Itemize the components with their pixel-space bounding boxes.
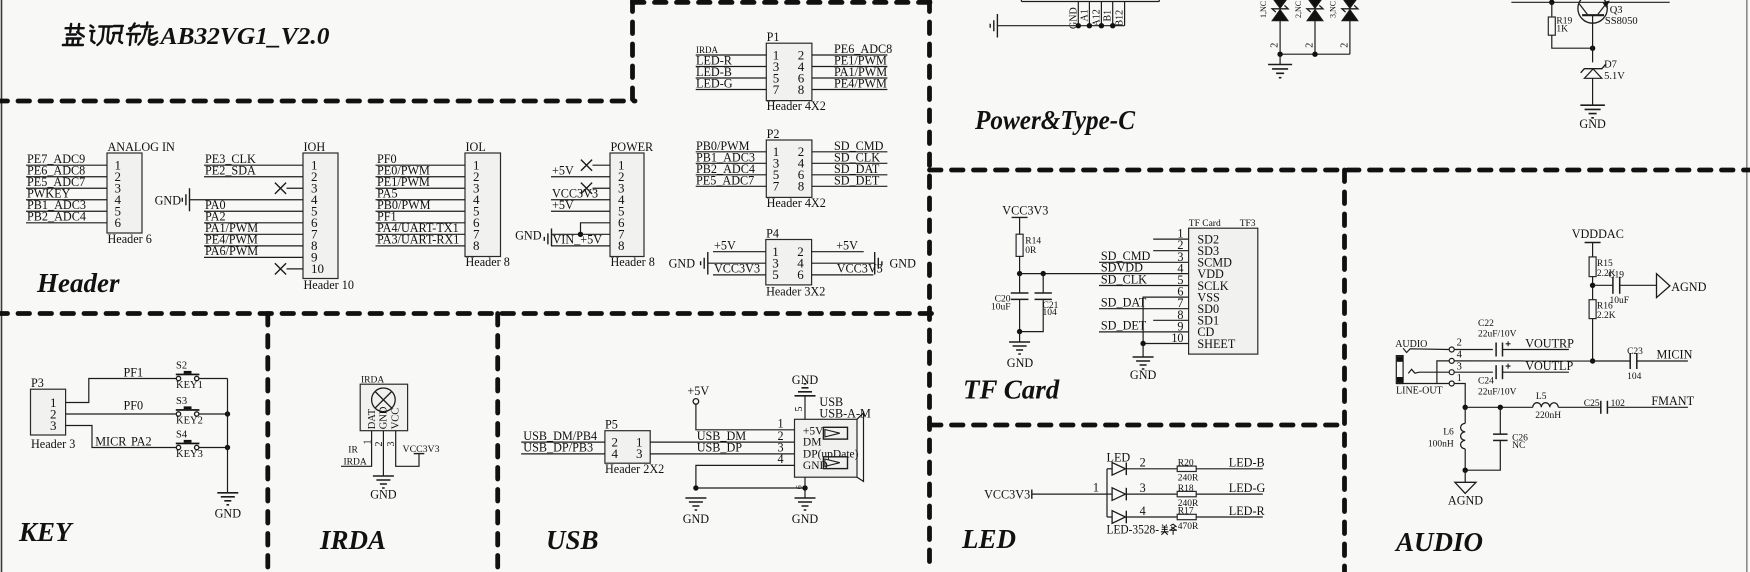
jack sleeve line to pin1 xyxy=(1396,383,1449,385)
no-connect X on IOH pin 10 xyxy=(275,263,303,274)
TVS diode 1,NC xyxy=(1259,0,1288,54)
svg-text:1,NC: 1,NC xyxy=(1259,1,1268,18)
jack ring contact chevron to pin3 xyxy=(1408,369,1449,373)
svg-text:LED-3528-: LED-3528- xyxy=(1107,523,1160,537)
svg-text:7: 7 xyxy=(773,179,780,194)
wire USB pin4 to GND net xyxy=(696,465,795,488)
svg-text:R20: R20 xyxy=(1178,459,1194,469)
svg-text:+5V: +5V xyxy=(836,239,858,253)
wire S4 to GND net xyxy=(199,447,228,449)
TF3 pin 8 SD1 label xyxy=(1177,308,1219,328)
wire R19 to base net xyxy=(1552,35,1593,48)
KEY/IRDA dashed divider xyxy=(265,314,270,572)
+5V supply circle xyxy=(687,384,709,404)
TF3 pin 10 SHEET label xyxy=(1171,331,1236,351)
TF card socket TF3 xyxy=(1189,219,1258,354)
svg-text:Header 8: Header 8 xyxy=(466,255,510,269)
USB pin5 shield stub xyxy=(794,396,805,419)
wire KEY GND vertical xyxy=(227,379,229,493)
wire TVS bus to ground xyxy=(1279,54,1281,64)
svg-text:IOL: IOL xyxy=(466,140,486,154)
wire Type-C ground bus xyxy=(997,25,1124,27)
jack pin circle 3 xyxy=(1449,362,1462,375)
junction dot Type-C GND xyxy=(1076,23,1081,28)
svg-text:GND: GND xyxy=(792,373,819,387)
wire PE1/PWM from P1 pin 4 xyxy=(812,54,888,68)
svg-text:USB_DP: USB_DP xyxy=(697,441,743,455)
sheet right border xyxy=(1746,0,1748,572)
svg-text:IRDA: IRDA xyxy=(319,525,386,555)
svg-text:4: 4 xyxy=(778,452,784,466)
wire PE3_CLK to IOH pin 1 xyxy=(204,152,303,166)
wire SD_CMD to TF3 pin 3 xyxy=(1099,249,1189,263)
jack pin circle 1 xyxy=(1449,373,1462,386)
svg-text:L6: L6 xyxy=(1443,427,1454,437)
junction dot POWER pin6/7 xyxy=(578,232,583,237)
TF3 pin 9 CD label xyxy=(1177,319,1214,339)
ground symbol TF caps xyxy=(1007,332,1034,370)
capacitor C22 22uF/10V xyxy=(1454,319,1516,357)
top dashed border of middle header column xyxy=(633,0,931,5)
svg-text:IRDA: IRDA xyxy=(361,375,384,385)
svg-text:GND: GND xyxy=(890,257,917,271)
svg-text:C24: C24 xyxy=(1478,377,1494,387)
connector ANALOG IN Header 6 xyxy=(107,140,175,246)
wire PA2 to IOH pin 6 xyxy=(204,210,303,224)
no-connect X on POWER pin 3 xyxy=(581,183,610,194)
svg-text:3: 3 xyxy=(1457,362,1462,373)
svg-text:LINE-OUT: LINE-OUT xyxy=(1396,385,1443,396)
jack pin circle 4 xyxy=(1449,349,1462,363)
wire PF0 to IOL pin 1 xyxy=(376,152,466,166)
svg-text:GND: GND xyxy=(1579,117,1606,131)
capacitor C20 10uF xyxy=(991,274,1028,332)
svg-text:SS8050: SS8050 xyxy=(1605,16,1638,27)
wire LED-G to P1 pin 7 xyxy=(696,77,767,91)
svg-text:4: 4 xyxy=(1140,504,1146,518)
svg-text:POWER: POWER xyxy=(611,140,655,154)
svg-text:1: 1 xyxy=(1457,373,1462,384)
svg-text:Header 2X2: Header 2X2 xyxy=(605,462,664,476)
svg-text:PE2_SDA: PE2_SDA xyxy=(205,164,256,178)
GND symbol Type-C bus xyxy=(990,14,997,38)
label LED-3528 part name xyxy=(1107,523,1178,537)
svg-text:VIN_+5V: VIN_+5V xyxy=(553,233,603,247)
inductor L6 100nH xyxy=(1428,407,1465,470)
svg-text:Power&Type-C: Power&Type-C xyxy=(974,105,1136,135)
svg-text:PB2_ADC4: PB2_ADC4 xyxy=(27,210,86,224)
wire LED-B to P1 pin 5 xyxy=(696,65,767,79)
Type-C pin A12 stub xyxy=(1091,2,1102,27)
junction dot TVS 1 xyxy=(1277,52,1282,57)
wire PE5_ADC7 to P2 pin 7 xyxy=(696,173,767,187)
svg-text:VOUTRP: VOUTRP xyxy=(1525,336,1574,350)
pushbutton switch S4 KEY3 xyxy=(176,430,203,460)
wire stub TF3 pin 2 xyxy=(1153,250,1188,252)
junction dot C21 branch xyxy=(1041,271,1046,276)
wire collector rail top xyxy=(1511,1,1669,3)
wire IRDA to P1 pin 1 xyxy=(696,45,767,55)
svg-text:LED-R: LED-R xyxy=(1229,504,1266,518)
svg-text:C19: C19 xyxy=(1608,271,1624,281)
svg-text:470R: 470R xyxy=(1178,522,1199,532)
svg-text:TF3: TF3 xyxy=(1240,219,1256,229)
ground symbol USB left xyxy=(683,498,710,526)
IRDA/USB dashed divider xyxy=(495,314,500,572)
wire +5V to POWER pin 5 xyxy=(551,198,610,212)
resistor R18 240R xyxy=(1177,484,1199,509)
svg-text:GND: GND xyxy=(1130,368,1157,382)
wire SDVDD rail to TF3 VDD xyxy=(1020,260,1189,274)
connector IOL Header 8 xyxy=(465,140,510,269)
svg-text:S2: S2 xyxy=(176,361,187,372)
svg-text:100nH: 100nH xyxy=(1428,439,1454,449)
svg-text:6: 6 xyxy=(795,485,804,489)
svg-text:VCC3V3: VCC3V3 xyxy=(403,444,440,455)
IRDA receiver module U? xyxy=(360,375,407,430)
svg-text:SD_CLK: SD_CLK xyxy=(1101,272,1147,286)
wire PB1_ADC3 to ANALOG IN pin 5 xyxy=(26,198,107,212)
svg-text:LED-G: LED-G xyxy=(1229,481,1266,495)
svg-text:220nH: 220nH xyxy=(1535,411,1561,421)
svg-text:Header 6: Header 6 xyxy=(108,232,152,246)
svg-text:A1: A1 xyxy=(1079,9,1090,21)
USB plug icon bottom xyxy=(823,457,847,469)
wire SD_DET to TF3 pin 9 xyxy=(1099,319,1189,333)
wire USB_DM/PB4 to P5 xyxy=(521,429,605,443)
svg-text:LED-B: LED-B xyxy=(1229,456,1265,470)
svg-text:2: 2 xyxy=(1339,43,1350,48)
Type-C pin A1 stub xyxy=(1079,2,1090,26)
svg-text:PA6/PWM: PA6/PWM xyxy=(205,244,258,258)
wire PE4/PWM to IOH pin 8 xyxy=(204,233,303,247)
ground symbol IRDA GND xyxy=(370,476,397,502)
svg-text:8: 8 xyxy=(798,82,805,97)
svg-text:4: 4 xyxy=(1457,349,1463,360)
LED diode row LED-R xyxy=(1107,504,1177,524)
TF3 pin 7 SD0 label xyxy=(1177,296,1219,316)
Type-C pin B12 stub xyxy=(1115,2,1126,27)
sheet left border xyxy=(1,0,3,572)
svg-text:P5: P5 xyxy=(605,417,618,431)
svg-text:GND: GND xyxy=(370,488,397,502)
wire PWKEY to ANALOG IN pin 4 xyxy=(26,187,107,201)
svg-text:C22: C22 xyxy=(1478,319,1494,329)
junction dot USB gnd right xyxy=(802,485,807,490)
svg-text:104: 104 xyxy=(1627,372,1642,382)
svg-text:PF0: PF0 xyxy=(124,398,144,412)
wire PE0/PWM to IOL pin 2 xyxy=(376,164,466,178)
svg-text:22uF/10V: 22uF/10V xyxy=(1478,330,1517,340)
svg-text:3: 3 xyxy=(50,418,57,433)
wire VOUTRP xyxy=(1503,336,1575,350)
GND symbol to P4 pin 3 xyxy=(669,252,766,275)
svg-text:PE4/PWM: PE4/PWM xyxy=(834,77,887,91)
TF3 pin 1 SD2 label xyxy=(1177,227,1219,247)
wire TF3 VSS to SHEET gnd xyxy=(1143,297,1189,343)
wire PF0 from P3 pin2 to S3 xyxy=(66,398,177,414)
svg-text:VOUTLP: VOUTLP xyxy=(1525,359,1573,373)
wire PA1/PWM to IOH pin 7 xyxy=(204,221,303,235)
TF3 pin 5 SCLK label xyxy=(1177,273,1228,293)
TVS diode 3,NC xyxy=(1329,0,1358,54)
wire L5 to C25 xyxy=(1558,406,1601,408)
svg-text:GND: GND xyxy=(792,512,819,526)
wire VCC3V3 from P4 pin 6 xyxy=(812,262,883,276)
svg-text:DAT: DAT xyxy=(367,408,378,429)
GND symbol from P4 pin 4 xyxy=(812,252,917,275)
title box dashed right border xyxy=(630,0,635,101)
TFCard/LED dashed divider xyxy=(930,423,1345,428)
wire LED-B out xyxy=(1196,456,1264,470)
svg-text:P3: P3 xyxy=(31,376,44,390)
svg-text:2: 2 xyxy=(1457,338,1462,349)
svg-text:GND: GND xyxy=(669,257,696,271)
svg-text:LED: LED xyxy=(1107,451,1131,465)
wire PA3/UART-RX1 to IOL pin 8 xyxy=(376,233,466,247)
svg-text:2,NC: 2,NC xyxy=(1294,1,1303,18)
svg-text:D7: D7 xyxy=(1604,60,1617,71)
svg-text:SD_DET: SD_DET xyxy=(834,173,880,187)
wire MICR PA2 from P3 pin3 to S4 xyxy=(66,426,177,449)
GND symbol on POWER pins 7-8 xyxy=(515,228,551,246)
wire PE6_ADC8 from P1 pin 2 xyxy=(812,42,892,56)
svg-text:3,NC: 3,NC xyxy=(1329,1,1338,18)
svg-text:5: 5 xyxy=(772,267,779,282)
wire SD_DET from P2 pin 8 xyxy=(812,173,888,187)
connector IOH Header 10 xyxy=(303,140,354,292)
ground symbol D7 xyxy=(1579,105,1606,131)
svg-text:C25: C25 xyxy=(1584,399,1600,409)
svg-text:+5V: +5V xyxy=(714,239,736,253)
connector P1 Header 4X2 xyxy=(766,30,826,113)
junction dot MICIN row xyxy=(1590,358,1595,363)
svg-text:MICR: MICR xyxy=(95,434,127,448)
wire LED-R out xyxy=(1196,504,1265,518)
svg-text:SD_CMD: SD_CMD xyxy=(1101,249,1151,263)
junction dot rail R19 xyxy=(1549,0,1554,5)
wire PE6_ADC8 to ANALOG IN pin 2 xyxy=(26,164,107,178)
svg-text:Header 3: Header 3 xyxy=(31,437,75,451)
svg-text:PF1: PF1 xyxy=(124,365,144,379)
sheet title text xyxy=(63,23,159,46)
svg-text:1: 1 xyxy=(778,417,784,431)
svg-text:MICIN: MICIN xyxy=(1657,348,1693,362)
connector P3 Header 3 xyxy=(31,376,76,451)
wire S2 to GND net xyxy=(199,378,228,380)
svg-text:VCC: VCC xyxy=(390,408,401,430)
junction dot AGND bottom xyxy=(1463,468,1468,473)
junction dot C19 branch xyxy=(1590,283,1595,288)
svg-text:GND: GND xyxy=(515,228,542,242)
wire PA4/UART-TX1 to IOL pin 7 xyxy=(376,221,466,235)
wire SD_DAT to TF3 pin 7 xyxy=(1099,296,1189,310)
svg-text:B12: B12 xyxy=(1115,10,1126,27)
power flag VDDDAC xyxy=(1572,227,1624,257)
junction dot Type-C A12 xyxy=(1099,23,1104,28)
svg-text:GND: GND xyxy=(155,193,182,207)
capacitor C19 10uF xyxy=(1593,271,1657,306)
svg-text:ANALOG IN: ANALOG IN xyxy=(108,140,176,154)
svg-text:6: 6 xyxy=(797,267,804,282)
wire +5V from P4 pin 2 xyxy=(812,239,864,253)
resistor R19 1K xyxy=(1548,2,1572,35)
svg-text:FMANT: FMANT xyxy=(1651,394,1694,408)
power flag VCC3V3 TF xyxy=(1002,204,1048,235)
junction dot AGND bus left xyxy=(1463,405,1468,410)
svg-text:4: 4 xyxy=(612,446,619,461)
svg-text:2: 2 xyxy=(1304,43,1315,48)
svg-text:SD_DAT: SD_DAT xyxy=(1101,296,1147,310)
wire +5V to USB pin1 xyxy=(696,404,795,430)
svg-text:Header: Header xyxy=(36,268,120,298)
svg-text:C23: C23 xyxy=(1627,347,1643,357)
svg-text:240R: 240R xyxy=(1178,474,1199,484)
wire PA6/PWM to IOH pin 9 xyxy=(204,244,303,258)
LED diode row LED-G xyxy=(1107,481,1177,501)
wire PB2_ADC4 to ANALOG IN pin 6 xyxy=(26,210,107,224)
svg-text:S3: S3 xyxy=(176,396,187,407)
svg-text:B1: B1 xyxy=(1103,10,1114,22)
wire R14 to VDD rail xyxy=(1019,256,1021,273)
svg-text:KEY: KEY xyxy=(18,517,74,547)
svg-text:2: 2 xyxy=(1270,43,1281,48)
svg-text:+5V: +5V xyxy=(687,384,709,398)
AGND flag right xyxy=(1657,274,1707,298)
svg-text:SD_DET: SD_DET xyxy=(1101,319,1147,333)
svg-text:5: 5 xyxy=(794,407,805,412)
svg-text:SHEET: SHEET xyxy=(1197,337,1235,351)
svg-text:R18: R18 xyxy=(1178,484,1194,494)
wire R16 to MICIN row xyxy=(1592,319,1594,361)
Type-C pin GND stub xyxy=(1068,2,1079,30)
svg-text:2: 2 xyxy=(1140,456,1146,470)
wire PE4/PWM from P1 pin 8 xyxy=(812,77,888,91)
wire jack pin1 to AGND bus xyxy=(1454,384,1465,408)
wire PE1/PWM to IOL pin 3 xyxy=(376,175,466,189)
svg-text:10uF: 10uF xyxy=(991,303,1011,313)
svg-text:VDDDAC: VDDDAC xyxy=(1572,227,1624,241)
svg-text:AGND: AGND xyxy=(1448,494,1483,508)
resistor R16 2.2K xyxy=(1589,300,1616,321)
svg-text:NC: NC xyxy=(1512,441,1525,451)
wire PA0 to IOH pin 5 xyxy=(204,198,303,212)
svg-text:Header 10: Header 10 xyxy=(304,278,354,292)
resistor R20 240R xyxy=(1177,459,1199,484)
svg-text:2.2K: 2.2K xyxy=(1597,311,1616,321)
svg-text:PA2: PA2 xyxy=(131,434,152,448)
wire PE2_SDA to IOH pin 2 xyxy=(204,164,303,178)
svg-text:3: 3 xyxy=(1140,481,1146,495)
svg-text:1K: 1K xyxy=(1556,25,1568,35)
wire MICIN row from jack pin4 xyxy=(1454,360,1592,362)
junction dot USB gnd left xyxy=(693,485,698,490)
wire SD_DAT from P2 pin 6 xyxy=(812,162,888,176)
wire PB2_ADC4 to P2 pin 5 xyxy=(696,162,767,176)
wire PF1 from P3 pin1 to S2 xyxy=(66,365,177,402)
svg-text:USB_DP/PB3: USB_DP/PB3 xyxy=(523,441,593,455)
svg-text:0R: 0R xyxy=(1025,246,1037,256)
USB-A-M connector J? xyxy=(795,395,872,481)
svg-text:3: 3 xyxy=(636,446,643,461)
wire S3 to GND net xyxy=(199,413,228,415)
wire GND bus under USB xyxy=(696,487,805,489)
resistor R14 0R xyxy=(1016,234,1041,256)
ground symbol KEY GND xyxy=(215,493,242,521)
ground symbol TF3 xyxy=(1130,344,1157,383)
wire VIN_+5V GND to POWER pin 7 xyxy=(552,233,611,247)
svg-text:8: 8 xyxy=(618,238,625,253)
wire SD_CMD from P2 pin 2 xyxy=(812,139,888,153)
USB plug icon top xyxy=(823,427,847,439)
transistor Q3 SS8050 xyxy=(1578,0,1638,48)
TF3 pin 4 VDD label xyxy=(1177,261,1224,281)
zener diode D7 5.1V xyxy=(1581,48,1626,105)
junction dot C26 branch xyxy=(1498,405,1503,410)
svg-text:TF Card: TF Card xyxy=(963,375,1060,405)
wire POWER pin 8 xyxy=(552,245,611,247)
wire PB0/PWM to P2 pin 1 xyxy=(696,139,767,153)
wire PA5 to IOL pin 4 xyxy=(376,187,466,201)
junction dot TF3 sheet gnd xyxy=(1140,341,1145,346)
jack pin4 tie vertical xyxy=(1437,361,1449,384)
svg-text:Header 8: Header 8 xyxy=(611,255,655,269)
svg-text:TF Card: TF Card xyxy=(1189,219,1221,229)
wire AGND bus xyxy=(1465,406,1533,408)
wire PB1_ADC3 to P2 pin 3 xyxy=(696,150,767,164)
PowerTypeC dashed bottom border xyxy=(930,168,1750,173)
svg-text:GND: GND xyxy=(1007,356,1034,370)
TF3 pin 6 VSS label xyxy=(1177,285,1220,305)
junction dot TVS 2 xyxy=(1312,52,1317,57)
svg-text:104: 104 xyxy=(1043,308,1058,318)
wire IRDA pin3 to VCC3V3 xyxy=(396,431,440,467)
wire USB_DM P5 to USB pin2 xyxy=(650,429,794,443)
LED diode row LED-B xyxy=(1107,456,1177,476)
wire VCC3V3 to P4 pin 5 xyxy=(713,262,766,276)
wire TVS common bus xyxy=(1280,53,1350,55)
inductor L5 220nH xyxy=(1533,392,1562,421)
no-connect X on IOH pin 3 xyxy=(275,183,303,194)
wire LED-G out xyxy=(1196,481,1265,495)
svg-text:6: 6 xyxy=(115,215,122,230)
svg-text:PA3/UART-RX1: PA3/UART-RX1 xyxy=(377,233,459,247)
capacitor C24 22uF/10V xyxy=(1454,364,1516,398)
Type-C connector body bottom edge xyxy=(1021,0,1159,2)
wire VOUTLP xyxy=(1503,359,1574,373)
svg-text:1: 1 xyxy=(1093,481,1099,495)
svg-text:DP(upDate): DP(upDate) xyxy=(803,449,859,461)
svg-text:22uF/10V: 22uF/10V xyxy=(1478,387,1517,397)
junction dot Type-C A1 xyxy=(1087,23,1092,28)
svg-text:AGND: AGND xyxy=(1671,280,1706,294)
svg-text:KEY1: KEY1 xyxy=(176,380,203,391)
svg-text:R14: R14 xyxy=(1025,237,1041,247)
svg-text:IOH: IOH xyxy=(304,140,326,154)
svg-text:IRDA: IRDA xyxy=(344,457,367,467)
svg-text:P4: P4 xyxy=(766,226,779,240)
svg-text:VCC3V3: VCC3V3 xyxy=(714,262,760,276)
svg-text:Header 3X2: Header 3X2 xyxy=(766,285,825,299)
connector P5 Header 2X2 xyxy=(605,417,664,475)
svg-text:P1: P1 xyxy=(767,30,780,44)
svg-text:8: 8 xyxy=(473,238,480,253)
GND symbol on IOH pin 4 xyxy=(155,188,303,211)
svg-text:USB-A-M: USB-A-M xyxy=(819,407,871,421)
TFCard/AUDIO dashed divider x=1345 xyxy=(1342,170,1347,572)
wire SD_CLK to TF3 pin 5 xyxy=(1099,272,1189,286)
wire IRDA pin1 DAT to IR net xyxy=(341,431,372,468)
